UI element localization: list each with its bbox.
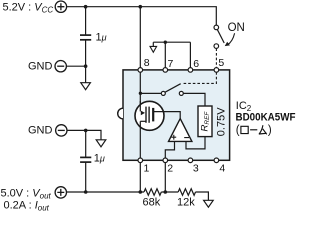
switch S1 terminal bottom	[214, 44, 219, 49]
svg-text:12k: 12k	[177, 197, 195, 209]
resistor RREF	[198, 106, 212, 137]
wire S2 to RREF	[183, 93, 205, 106]
junction pin2 rail	[164, 190, 168, 194]
junction internal switch	[139, 92, 142, 95]
svg-text:6: 6	[193, 58, 199, 70]
wire op-amp minus to RREF	[186, 137, 205, 149]
ground right	[204, 200, 214, 207]
resistor R1 68k	[144, 189, 161, 196]
op-amp U1	[169, 119, 192, 142]
ground mini pin7	[150, 46, 157, 52]
resistor R2 12k	[178, 189, 195, 196]
junction GND lower	[84, 129, 88, 133]
svg-text:GND: GND	[28, 60, 53, 72]
pin 7	[163, 68, 168, 73]
junction C2 bottom	[84, 190, 88, 194]
wire op-amp plus to pin2	[165, 141, 174, 158]
svg-text:): )	[268, 124, 272, 136]
pin 5	[214, 68, 219, 73]
pin 3	[188, 158, 193, 163]
wire rail right to ground	[196, 192, 209, 200]
svg-text:2: 2	[167, 163, 173, 175]
wire pin1 down	[139, 163, 141, 192]
switch S2 internal	[161, 91, 165, 95]
wire gate line	[153, 112, 180, 119]
svg-text:1μ: 1μ	[94, 153, 105, 165]
wire pin8 drop	[139, 7, 141, 68]
svg-text:5.2V : VCC: 5.2V : VCC	[3, 2, 54, 15]
svg-text:4: 4	[219, 163, 225, 175]
wire pin2 down	[164, 163, 166, 192]
wire bottom rail left	[67, 191, 145, 193]
ground upper	[81, 83, 91, 90]
ground lower	[96, 140, 106, 147]
junction GND upper	[84, 64, 88, 68]
svg-text:(: (	[236, 124, 240, 136]
wire GND lower	[67, 130, 101, 139]
junction top pin8	[139, 5, 143, 9]
wire dashed pin5 to S2	[182, 72, 217, 83]
svg-text:0.2A : Iout: 0.2A : Iout	[4, 200, 50, 211]
terminal GND lower minus	[56, 125, 67, 136]
svg-text:1: 1	[144, 163, 150, 175]
terminal VCC plus	[55, 1, 66, 12]
wire GND upper	[66, 65, 85, 67]
capacitor C1	[80, 7, 91, 83]
switch S1 blade	[217, 30, 224, 43]
wire MOSFET drain to pin1	[139, 127, 141, 158]
wire pin7-pin6 bridge	[153, 42, 190, 67]
pin 6	[188, 68, 193, 73]
svg-text:8: 8	[144, 57, 150, 69]
svg-text:5: 5	[218, 57, 224, 69]
wire pin8 to switch junction	[139, 72, 141, 111]
svg-text:GND: GND	[28, 125, 53, 137]
pin 8	[138, 68, 143, 73]
IC notch	[118, 108, 123, 119]
svg-text:ON: ON	[228, 22, 245, 34]
wire dashed S1 to pin5	[215, 48, 217, 67]
svg-text:BD00KA5WF: BD00KA5WF	[236, 112, 296, 124]
capacitor C2	[80, 130, 91, 192]
wire rail mid	[161, 191, 178, 193]
junction bridge pin7	[164, 41, 167, 44]
pin 4	[214, 158, 219, 163]
pin 2	[163, 158, 168, 163]
terminal GND upper minus	[55, 60, 66, 71]
junction top cap	[84, 5, 88, 9]
IC U2 body	[123, 70, 230, 160]
switch ON arrow	[227, 33, 234, 45]
svg-text:3: 3	[193, 163, 199, 175]
junction pin1 rail	[139, 190, 143, 194]
transistor Q1 MOSFET	[135, 101, 164, 130]
svg-text:1μ: 1μ	[96, 31, 107, 43]
terminal VOUT plus	[55, 187, 66, 198]
wire top rail	[67, 7, 217, 25]
switch S1 terminal top	[214, 25, 219, 30]
svg-text:68k: 68k	[143, 197, 161, 209]
svg-text:7: 7	[168, 58, 174, 70]
pin 1	[138, 158, 143, 163]
svg-text:0.75V: 0.75V	[216, 107, 228, 136]
wire to internal switch	[140, 92, 161, 94]
